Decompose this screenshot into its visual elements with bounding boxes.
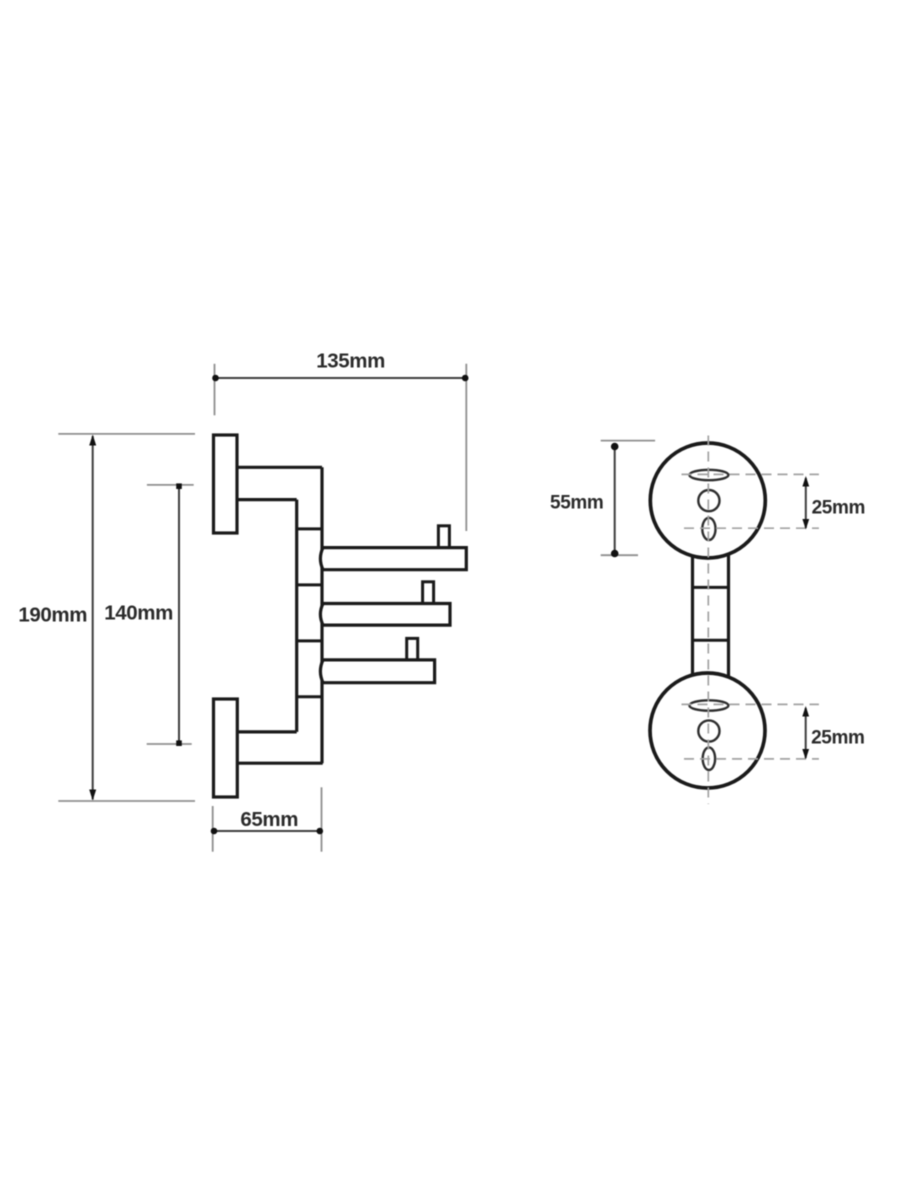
dim 55mm extension bottom bbox=[601, 554, 638, 556]
dim 25mm top line bbox=[805, 478, 807, 528]
bottom lower ellipse bbox=[703, 747, 715, 770]
bottom arm upper edge bbox=[236, 730, 297, 733]
knob circle bottom bbox=[650, 673, 765, 788]
post right edge bbox=[320, 467, 323, 763]
svg-text:65mm: 65mm bbox=[240, 808, 298, 831]
dim 55mm end dots bbox=[611, 443, 619, 451]
dim 135mm line bbox=[215, 377, 467, 379]
hinge division 4 bbox=[297, 695, 322, 698]
bottom screw circle bbox=[698, 720, 719, 741]
connector division 1 bbox=[693, 586, 729, 589]
svg-text:25mm: 25mm bbox=[811, 727, 864, 748]
hinge division 1 bbox=[297, 527, 322, 530]
dim 140mm extension top bbox=[147, 484, 194, 486]
dim 55mm extension top bbox=[601, 440, 655, 442]
svg-text:135mm: 135mm bbox=[316, 349, 385, 372]
dim 65mm end dots bbox=[211, 828, 218, 835]
connector right edge bbox=[727, 554, 730, 677]
dashed centerline vertical bbox=[707, 436, 709, 805]
hinge division 3 bbox=[297, 639, 322, 642]
dim 190mm line bbox=[92, 436, 94, 800]
connector division 2 bbox=[693, 639, 729, 642]
dim 25mm top arrow down bbox=[802, 519, 809, 530]
svg-text:55mm: 55mm bbox=[550, 492, 603, 513]
top arm upper edge bbox=[236, 466, 322, 469]
dim 135mm end dots bbox=[212, 375, 219, 382]
post left edge bbox=[295, 500, 298, 732]
hook 2 peg bbox=[423, 582, 434, 605]
bottom arm lower edge bbox=[236, 762, 323, 765]
dim 25mm bottom arrow up bbox=[802, 706, 809, 717]
dim 25mm bottom arrow down bbox=[802, 749, 809, 760]
svg-text:190mm: 190mm bbox=[18, 604, 87, 627]
dim 65mm extension left bbox=[212, 806, 214, 852]
top slot ellipse bbox=[689, 470, 728, 480]
dim 25mm bottom line bbox=[805, 708, 807, 758]
dim 25mm top arrow up bbox=[802, 476, 809, 487]
dim 65mm line bbox=[213, 830, 321, 832]
connector left edge bbox=[691, 556, 694, 675]
svg-text:140mm: 140mm bbox=[104, 602, 173, 625]
dim 140mm end squares bbox=[176, 483, 182, 489]
wall plate bottom bbox=[214, 699, 238, 797]
dashed line through bottom slot bbox=[682, 703, 819, 705]
hook 1 peg bbox=[438, 526, 449, 549]
dim 135mm extension right bbox=[465, 364, 467, 531]
top arm lower edge bbox=[236, 498, 297, 501]
dim 190mm arrow top bbox=[89, 435, 96, 446]
hook 3 bar bbox=[320, 660, 434, 683]
hinge division 2 bbox=[297, 583, 322, 586]
hook 1 bar bbox=[320, 548, 466, 570]
wall plate top bbox=[214, 435, 238, 533]
dim 190mm arrow bottom bbox=[89, 790, 96, 801]
dim 135mm extension left bbox=[214, 364, 216, 416]
dashed line through top slot bbox=[682, 473, 819, 475]
hook 3 peg bbox=[407, 638, 418, 661]
dim 140mm extension bottom bbox=[147, 743, 192, 745]
hook 2 bar bbox=[320, 604, 450, 626]
dim 65mm extension right bbox=[321, 787, 323, 851]
dim 190mm extension top bbox=[58, 433, 195, 435]
dashed line through top lower ellipse bbox=[684, 527, 819, 529]
dim 55mm line bbox=[614, 443, 616, 556]
top lower ellipse bbox=[702, 518, 715, 540]
dashed line through bottom lower ellipse bbox=[684, 758, 819, 760]
dim 190mm extension bottom bbox=[58, 800, 195, 802]
svg-text:25mm: 25mm bbox=[812, 497, 865, 518]
top screw circle bbox=[698, 490, 719, 511]
knob circle top bbox=[650, 443, 765, 558]
dim 140mm line bbox=[178, 486, 180, 744]
bottom slot ellipse bbox=[689, 700, 728, 710]
